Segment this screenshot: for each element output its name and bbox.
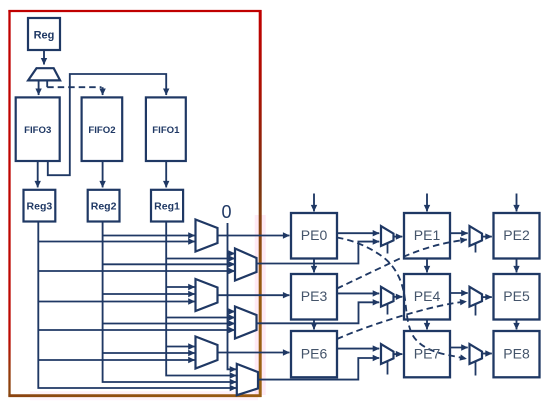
wire Reg to mux M0 [43, 50, 45, 65]
svg-text:PE6: PE6 [301, 346, 328, 362]
wire PE4 to mux S2b [450, 292, 468, 294]
wire mux A2 out to PE3 [218, 294, 290, 296]
border halo [255, 215, 266, 395]
svg-text:PE4: PE4 [414, 288, 441, 304]
wire Reg3 to mux A2 [38, 301, 194, 303]
svg-text:PE8: PE8 [503, 346, 530, 362]
PE8 [494, 331, 540, 377]
svg-text:PE0: PE0 [301, 227, 328, 243]
wire PE7 to mux S3c [450, 347, 468, 349]
mux S3 [381, 344, 394, 364]
svg-text:Reg: Reg [34, 30, 55, 42]
FIFO3 [16, 97, 60, 161]
wire mux B1 out wrap to mux S1 [257, 242, 380, 264]
wire PE0 to PE3 [313, 259, 315, 273]
wire dashed PE6 to mux S2b [337, 302, 467, 340]
wire FIFO2 to Reg2 [102, 161, 104, 187]
mux B2 [235, 307, 257, 339]
svg-text:FIFO2: FIFO2 [88, 125, 115, 136]
PE7 [404, 331, 450, 377]
mux S2b [470, 287, 483, 307]
register Reg2 [88, 190, 120, 222]
svg-text:FIFO3: FIFO3 [24, 125, 51, 136]
wire Reg1 to mux B1 [166, 258, 235, 260]
wire mux S3 to PE7 [394, 353, 403, 355]
mux S1 select stub [387, 243, 389, 254]
wire PE1 to PE4 [426, 259, 428, 273]
wire PE3 to PE6 [313, 320, 315, 330]
FIFO2 [82, 97, 123, 161]
wire PE2 to PE5 [516, 259, 518, 273]
PE6 [291, 331, 337, 377]
svg-text:PE5: PE5 [503, 288, 530, 304]
outer input-buffer border right edge [259, 10, 262, 397]
PE0 [291, 213, 337, 259]
register Reg1 [151, 190, 183, 222]
svg-text:FIFO1: FIFO1 [152, 125, 180, 136]
wire PE6 to mux S3 [337, 348, 379, 350]
wire PE4 to PE7 [426, 320, 428, 330]
PE1 [404, 213, 450, 259]
wire arrow into FIFO2 top [102, 87, 104, 95]
svg-text:Reg2: Reg2 [91, 201, 117, 213]
wire dashed PE0 to mux S3c [337, 238, 467, 359]
mux A2 [196, 279, 218, 311]
mux S2b select stub [475, 303, 477, 315]
wire Reg3 to mux B2 [38, 329, 235, 331]
svg-text:Reg1: Reg1 [154, 201, 180, 213]
wire FIFO3 feedback to FIFO1 [48, 74, 166, 175]
PE4 [404, 274, 450, 320]
register Reg3 [24, 190, 56, 222]
outer input-buffer border top edge [8, 10, 261, 12]
mux S2 select stub [387, 303, 389, 314]
svg-text:0: 0 [221, 202, 231, 222]
PE3 [291, 274, 337, 320]
wire Reg3 to mux A1 [38, 241, 194, 243]
mux S1b select stub [475, 243, 477, 253]
wire Reg2 vertical bus to mux B3 [103, 222, 237, 383]
mux S1b [470, 226, 483, 246]
wire PE1 to mux S1b [450, 232, 468, 234]
wire FIFO1 to Reg1 [165, 161, 167, 187]
wire input arrow into PE1 top [426, 194, 428, 212]
wire mux S1b to PE2 [482, 236, 492, 238]
svg-text:PE7: PE7 [414, 346, 441, 362]
register Reg [28, 18, 60, 50]
wire Reg2 to mux B1 [103, 263, 235, 265]
mux S3c [470, 344, 483, 364]
wire mux S2b to PE5 [482, 296, 492, 298]
wire Reg2 to mux A3 [103, 352, 195, 354]
wire mux A3 out to PE6 [218, 352, 290, 354]
mux S3 select stub [387, 361, 389, 375]
mux A3 [196, 337, 218, 369]
wire Reg3 to mux A3 [38, 359, 194, 361]
wire Reg1 vertical bus to mux B3 [166, 222, 236, 376]
mux S3c select stub [475, 361, 477, 376]
node 0 constant line [228, 223, 237, 369]
mux S2 [381, 287, 394, 307]
wire Reg2 to mux B2 [103, 323, 235, 325]
wire PE0 to mux S1 [337, 232, 379, 234]
wire PE5 to PE8 [516, 320, 518, 330]
wire mux B3 out wrap to mux S3 [258, 358, 379, 380]
outer input-buffer border left edge [8, 10, 10, 397]
PE5 [494, 274, 540, 320]
wire mux S2 to PE4 [394, 296, 403, 298]
wire M0 out to FIFO3 [38, 80, 40, 95]
svg-text:PE1: PE1 [414, 227, 441, 243]
wire Reg2 to mux A2 [103, 293, 195, 295]
wire Reg2 to mux A1 [103, 235, 195, 237]
wire Reg3 to mux B1 [38, 270, 235, 272]
wire Reg1 to mux A3 [166, 346, 195, 348]
wire Reg1 to mux A2 [166, 286, 195, 288]
wire PE3 to mux S2 [337, 292, 379, 294]
mux M0 [28, 68, 60, 80]
outer input-buffer border bottom edge [8, 394, 261, 397]
wire mux A1 out to PE0 [218, 235, 290, 237]
wire 0 stub to mux B2 [228, 311, 235, 313]
wire Reg3 vertical bus to mux B3 [38, 222, 236, 389]
PE2 [494, 213, 540, 259]
wire mux B2 out wrap to mux S2 [257, 302, 380, 323]
wire dashed M0 to FIFO2 [47, 86, 101, 88]
svg-text:PE3: PE3 [301, 288, 328, 304]
wire mux S3c to PE8 [482, 353, 492, 355]
wire 0 stub to mux B1 [228, 253, 235, 255]
mux B1 [235, 249, 257, 281]
wire FIFO3 to Reg3 [37, 161, 39, 187]
wire mux S1 to PE1 [394, 236, 403, 238]
wire Reg1 to mux B2 [166, 317, 235, 319]
wire dashed PE3 to mux S1b [337, 240, 467, 289]
svg-text:Reg3: Reg3 [27, 201, 53, 213]
wire input arrow into PE0 top [313, 194, 315, 212]
mux A1 [196, 220, 218, 252]
mux S1 [381, 226, 394, 246]
svg-text:PE2: PE2 [503, 227, 530, 243]
mux B3 [237, 364, 258, 395]
wire M0 out2 stub [46, 80, 48, 87]
wire input arrow into PE2 top [516, 194, 518, 212]
FIFO1 [146, 97, 186, 161]
